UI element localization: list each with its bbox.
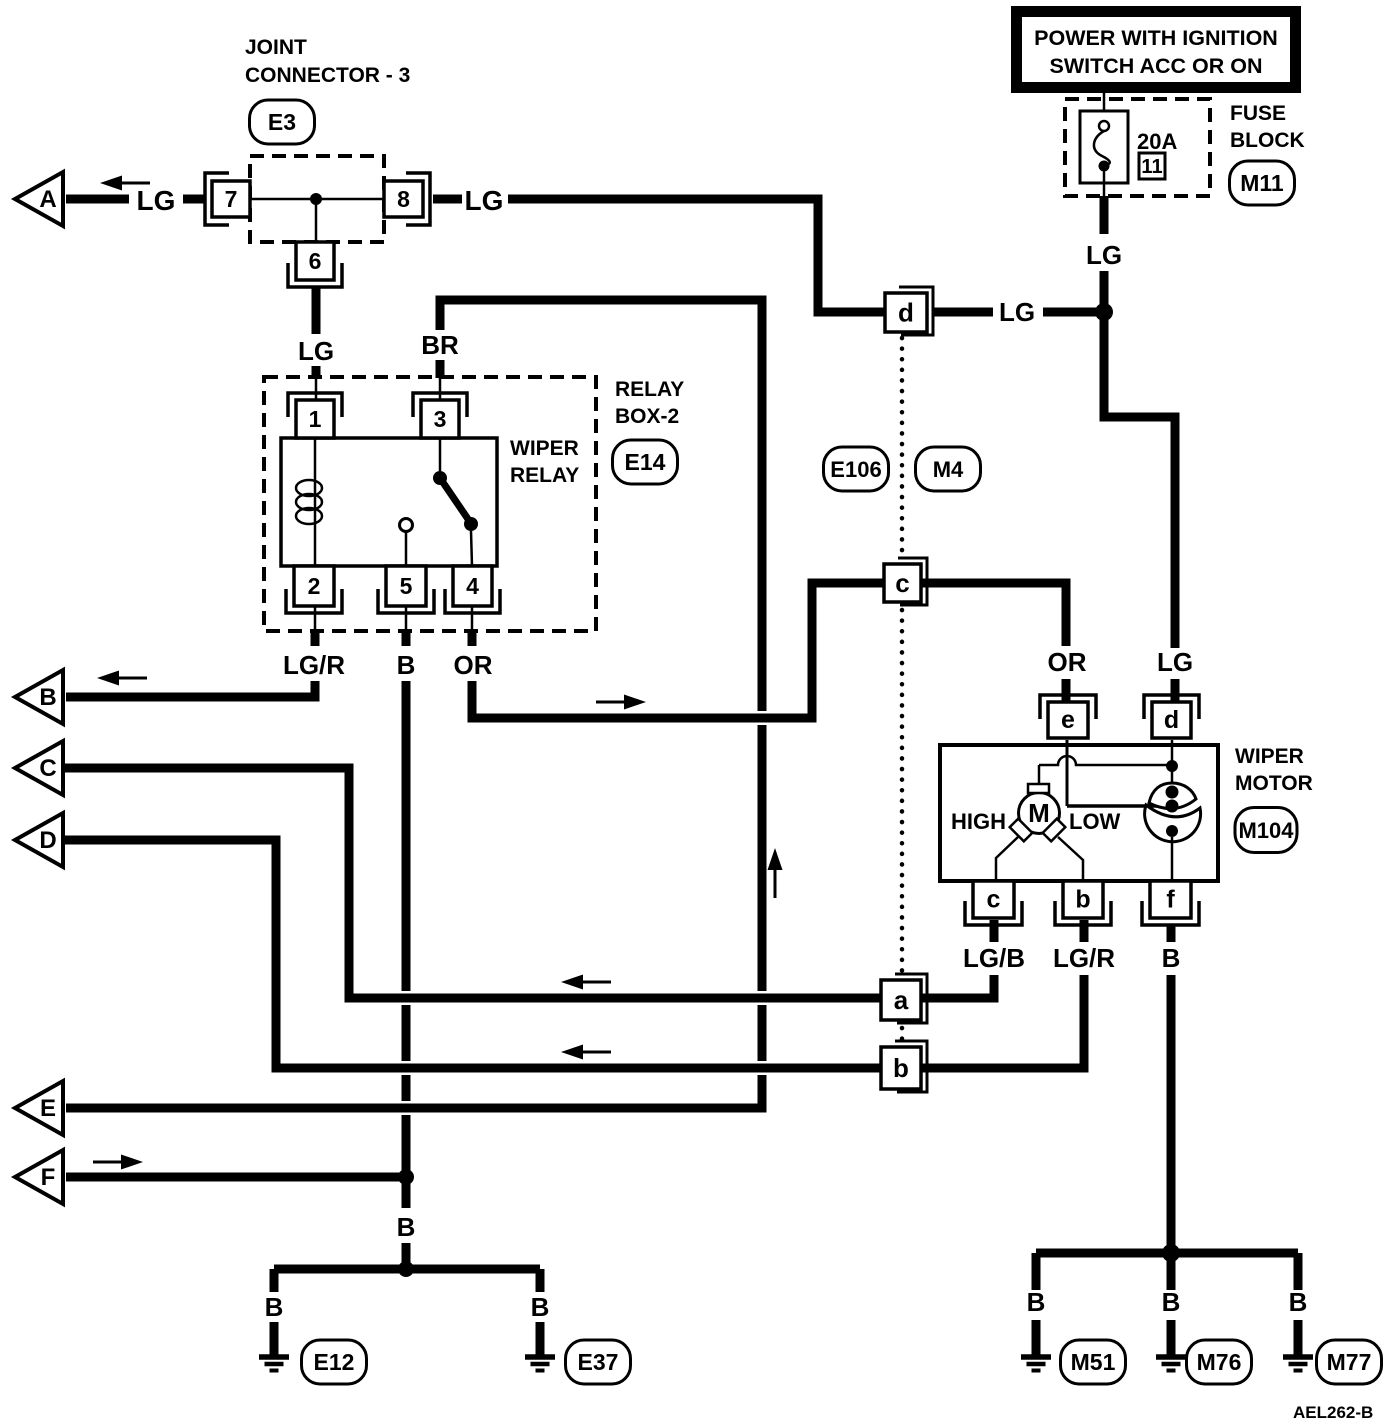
relay pin 2: [294, 566, 334, 606]
svg-text:b: b: [893, 1053, 909, 1083]
svg-text:B: B: [1027, 1287, 1046, 1317]
wire relay pin 3 / BR riser: [439, 378, 442, 400]
park switch contacts: [1166, 786, 1179, 799]
svg-text:B: B: [39, 684, 56, 711]
svg-text:11: 11: [1141, 156, 1162, 178]
svg-text:E3: E3: [268, 109, 296, 135]
connector label E3: [250, 100, 315, 144]
relay pin 5: [386, 566, 426, 606]
svg-text:2: 2: [308, 573, 321, 599]
svg-text:d: d: [1164, 706, 1179, 734]
connector label M4: [916, 447, 981, 491]
svg-text:E: E: [40, 1095, 56, 1122]
inline connector c: [898, 558, 927, 605]
svg-text:B: B: [265, 1292, 284, 1322]
relay contact (pin 5): [400, 519, 413, 532]
svg-text:f: f: [1166, 886, 1175, 914]
svg-text:HIGH: HIGH: [951, 809, 1006, 834]
svg-text:1: 1: [309, 406, 322, 432]
svg-text:BOX-2: BOX-2: [615, 405, 679, 428]
svg-text:B: B: [1289, 1287, 1308, 1317]
wire d to junction (LG): [933, 308, 993, 317]
svg-text:CONNECTOR - 3: CONNECTOR - 3: [245, 64, 410, 87]
off-page connector C: [15, 741, 63, 795]
motor wire: park switch to pin f: [1171, 837, 1174, 881]
svg-text:20A: 20A: [1137, 129, 1177, 154]
node: E3 internal bus: [250, 198, 384, 201]
svg-text:JOINT: JOINT: [245, 36, 307, 59]
connector label E106: [824, 447, 889, 491]
motor pin b: [1063, 881, 1103, 918]
wire relay pin 5 down (B): [405, 606, 408, 631]
svg-text:E106: E106: [830, 457, 881, 482]
svg-text:RELAY: RELAY: [510, 464, 579, 487]
wire a to motor pin c (LG/B): [921, 975, 994, 998]
connector label E14: [613, 440, 678, 484]
motor armature M: [1019, 793, 1060, 834]
svg-text:LG: LG: [137, 185, 176, 216]
fuse 20A: [1103, 93, 1106, 121]
svg-text:E14: E14: [625, 449, 666, 475]
motor pin f: [1150, 881, 1191, 918]
wire to off-page E: [66, 1075, 762, 1108]
junction LG: [1095, 303, 1113, 321]
relay box-2 dashed box: [264, 377, 596, 631]
svg-text:AEL262-B: AEL262-B: [1293, 1403, 1373, 1422]
svg-text:LG/R: LG/R: [283, 650, 345, 680]
arrow up on BR riser: [774, 870, 777, 898]
wiper motor body: [940, 745, 1218, 881]
arrow on wire b: [583, 1051, 611, 1054]
svg-text:e: e: [1061, 706, 1075, 734]
svg-text:d: d: [898, 298, 914, 328]
motor pin e: [1048, 702, 1088, 738]
svg-text:M104: M104: [1238, 818, 1294, 843]
svg-text:D: D: [39, 827, 56, 854]
motor wire: pin e to park switch common: [1066, 740, 1069, 806]
wire F to ground bus: [66, 1173, 406, 1182]
svg-text:M76: M76: [1197, 1349, 1242, 1375]
ground bus right: [1162, 1244, 1180, 1262]
svg-text:POWER WITH IGNITION: POWER WITH IGNITION: [1034, 26, 1278, 50]
motor wire: brushes to pins c and b: [996, 837, 1018, 881]
svg-text:BR: BR: [421, 330, 459, 360]
svg-text:OR: OR: [1048, 647, 1087, 677]
wire C to connector a: [63, 768, 882, 998]
svg-text:8: 8: [397, 186, 410, 212]
svg-text:MOTOR: MOTOR: [1235, 772, 1313, 795]
arrow on wire F: [93, 1161, 121, 1164]
wire motor pin f to ground bus (B): [1167, 924, 1176, 942]
pin 6: [296, 242, 334, 280]
fuse block dashed box: [1065, 99, 1210, 196]
svg-text:C: C: [39, 755, 56, 782]
svg-text:5: 5: [400, 573, 413, 599]
svg-text:6: 6: [309, 248, 322, 274]
junction F/B: [398, 1169, 414, 1185]
svg-text:3: 3: [434, 406, 447, 432]
pin 7: [212, 181, 250, 217]
svg-text:RELAY: RELAY: [615, 378, 684, 401]
motor pin c: [973, 881, 1014, 918]
wire pin 6 to relay pin 1 (LG): [312, 287, 321, 334]
svg-text:E12: E12: [314, 1349, 355, 1375]
svg-text:M: M: [1028, 798, 1050, 828]
svg-text:SWITCH ACC OR ON: SWITCH ACC OR ON: [1050, 54, 1263, 78]
ground E37: [525, 1354, 555, 1360]
wire A to pin 7: [66, 195, 129, 204]
motor wire: armature to d node (hop): [1038, 765, 1041, 784]
svg-text:FUSE: FUSE: [1230, 102, 1286, 125]
svg-text:B: B: [531, 1292, 550, 1322]
ground M77: [1283, 1354, 1313, 1360]
wire relay pin 4 to connector c (OR): [471, 606, 474, 631]
svg-text:LG: LG: [999, 297, 1035, 327]
svg-text:M51: M51: [1071, 1349, 1116, 1375]
wire relay pin 2 to off-page B (LG/R): [314, 606, 317, 631]
fuse number 11: [1139, 153, 1165, 179]
relay pin 1: [296, 400, 334, 438]
wiper relay body: [281, 438, 497, 566]
relay pin 4: [453, 566, 492, 606]
arrow on OR wire: [596, 701, 624, 704]
off-page connector F: [15, 1150, 63, 1204]
connector label M11: [1230, 161, 1295, 205]
wire D to connector b: [63, 840, 882, 1068]
park switch cam: [1145, 805, 1201, 842]
svg-text:B: B: [1162, 943, 1181, 973]
off-page connector B: [15, 670, 63, 724]
svg-text:a: a: [894, 985, 909, 1015]
inline connector a: [895, 974, 927, 1023]
motor wire: pin d to park switch: [1171, 740, 1174, 792]
off-page connector D: [15, 813, 63, 867]
svg-text:F: F: [41, 1164, 56, 1191]
relay switch: [439, 438, 442, 471]
svg-text:7: 7: [225, 186, 238, 212]
ground M76: [1156, 1354, 1186, 1360]
svg-text:WIPER: WIPER: [510, 437, 579, 460]
E106/M4 harness boundary dotted line: [900, 338, 905, 556]
arrow on wire B: [119, 677, 147, 680]
svg-text:LG/R: LG/R: [1053, 943, 1115, 973]
svg-text:BLOCK: BLOCK: [1230, 129, 1305, 152]
wire b to motor pin b (LG/R): [921, 975, 1084, 1068]
ground bus left: [398, 1261, 414, 1277]
svg-text:c: c: [895, 568, 909, 598]
wire pin 8 to connector d (LG): [433, 195, 462, 204]
svg-text:4: 4: [466, 573, 479, 599]
svg-text:B: B: [397, 1212, 416, 1242]
svg-text:LG/B: LG/B: [963, 943, 1025, 973]
svg-text:A: A: [39, 186, 56, 213]
power banner POWER WITH IGNITION SWITCH ACC OR ON: [1017, 12, 1296, 88]
svg-text:WIPER: WIPER: [1235, 745, 1304, 768]
svg-text:LOW: LOW: [1069, 809, 1121, 834]
motor pin d: [1152, 702, 1191, 738]
svg-text:OR: OR: [454, 650, 493, 680]
ground E12: [259, 1354, 289, 1360]
arrow on wire A: [122, 182, 150, 185]
joint connector E3 dashed box: [250, 156, 384, 242]
svg-text:E37: E37: [578, 1349, 619, 1375]
svg-text:LG: LG: [1157, 647, 1193, 677]
svg-text:c: c: [987, 886, 1001, 914]
off-page connector E: [15, 1081, 63, 1135]
wire c to motor pin e (OR): [921, 583, 1066, 646]
inline connector d: [899, 287, 933, 335]
relay pin 3: [421, 400, 459, 438]
inline connector b: [895, 1041, 927, 1092]
relay coil: [314, 438, 317, 566]
svg-text:B: B: [1162, 1287, 1181, 1317]
svg-text:M77: M77: [1327, 1349, 1372, 1375]
ground M51: [1021, 1354, 1051, 1360]
off-page connector A: [15, 172, 63, 226]
svg-text:LG: LG: [465, 185, 504, 216]
svg-text:M4: M4: [933, 457, 964, 482]
svg-text:b: b: [1075, 886, 1090, 914]
svg-text:LG: LG: [298, 336, 334, 366]
svg-text:LG: LG: [1086, 240, 1122, 270]
svg-text:M11: M11: [1240, 170, 1284, 196]
svg-text:B: B: [397, 650, 416, 680]
arrow on wire a: [583, 981, 611, 984]
connector label M104: [1235, 808, 1297, 853]
wire fuse to junction (LG): [1100, 196, 1109, 234]
pin 8: [384, 181, 423, 217]
